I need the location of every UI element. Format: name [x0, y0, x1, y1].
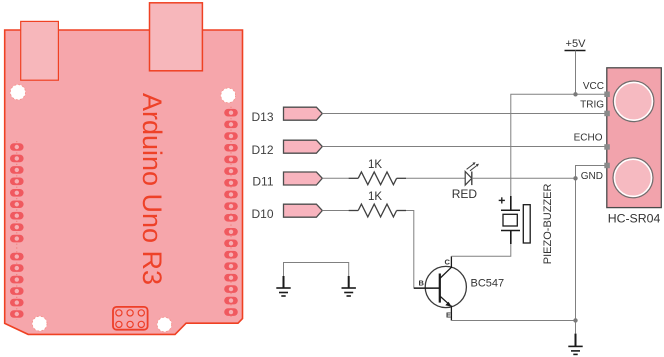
junction LED/GND [573, 176, 577, 180]
mounting hole top-left [10, 85, 25, 100]
svg-text:Arduino Uno R3: Arduino Uno R3 [137, 93, 167, 285]
mounting hole bottom-left [32, 316, 47, 331]
pin VCC [604, 92, 610, 98]
ground symbol bottom-right [568, 334, 582, 355]
svg-text:TRIG: TRIG [580, 100, 604, 111]
ICSP header [113, 307, 148, 330]
resistor R2 1K [349, 191, 406, 217]
ground symbol left [276, 276, 290, 296]
wire D12 to ECHO [322, 146, 605, 148]
pin ECHO [604, 144, 610, 150]
junction +5V/VCC [573, 92, 577, 96]
svg-text:1K: 1K [368, 159, 382, 171]
svg-text:D13: D13 [251, 110, 273, 124]
floating ground rail (Arduino GND) [284, 263, 349, 277]
svg-text:GND: GND [581, 171, 603, 182]
svg-text:E: E [446, 311, 451, 320]
pin tab D13 [251, 107, 322, 124]
resistor R1 1K [349, 159, 406, 185]
pin TRIG [604, 111, 610, 117]
wire resistor R1 to LED [406, 177, 465, 179]
transistor Q1 BC547 [414, 256, 504, 320]
wire collector to piezo [451, 244, 510, 257]
wire D10 to resistor R2 [322, 210, 349, 212]
+5V supply [565, 38, 587, 95]
svg-text:BC547: BC547 [471, 277, 505, 289]
wire piezo top to VCC line [511, 94, 605, 196]
svg-text:1K: 1K [368, 191, 382, 203]
pin GND [604, 163, 610, 169]
svg-text:PIEZO-BUZZER: PIEZO-BUZZER [542, 184, 554, 265]
svg-text:HC-SR04: HC-SR04 [608, 212, 661, 226]
wire GND pin to ground rail [576, 166, 606, 334]
pin tab D11 [252, 172, 322, 189]
piezo buzzer LS1 [499, 184, 554, 265]
ground symbol right [342, 276, 356, 296]
wire resistor R2 to transistor base [406, 211, 433, 289]
pin tab D12 [251, 140, 322, 157]
wire D11 to resistor R1 [322, 177, 349, 179]
LED D1 RED [452, 162, 479, 201]
wire LED to GND junction [472, 177, 576, 179]
right header pads [224, 107, 238, 318]
wire emitter to ground rail [451, 320, 575, 322]
transducer top [613, 81, 654, 122]
junction emitter/ground [573, 318, 577, 322]
svg-text:C: C [445, 258, 451, 267]
Arduino Uno R3 board U1 [5, 3, 243, 335]
power jack [21, 21, 59, 80]
svg-text:ECHO: ECHO [574, 132, 603, 143]
mounting hole bottom-middle [157, 317, 172, 332]
svg-text:D12: D12 [251, 143, 273, 157]
svg-text:B: B [419, 278, 425, 287]
svg-text:VCC: VCC [583, 81, 604, 92]
pin tab D10 [251, 204, 322, 221]
HC-SR04 ultrasonic module U2 [574, 68, 662, 226]
svg-text:D11: D11 [252, 175, 273, 189]
wire D13 to TRIG [322, 113, 605, 115]
USB connector [150, 3, 203, 71]
transducer bottom [613, 158, 653, 198]
left header pads [10, 141, 24, 320]
svg-text:+5V: +5V [566, 38, 587, 50]
svg-text:D10: D10 [251, 207, 273, 221]
board outline [5, 30, 243, 334]
mounting hole top-right [221, 88, 236, 103]
svg-text:RED: RED [452, 187, 478, 201]
